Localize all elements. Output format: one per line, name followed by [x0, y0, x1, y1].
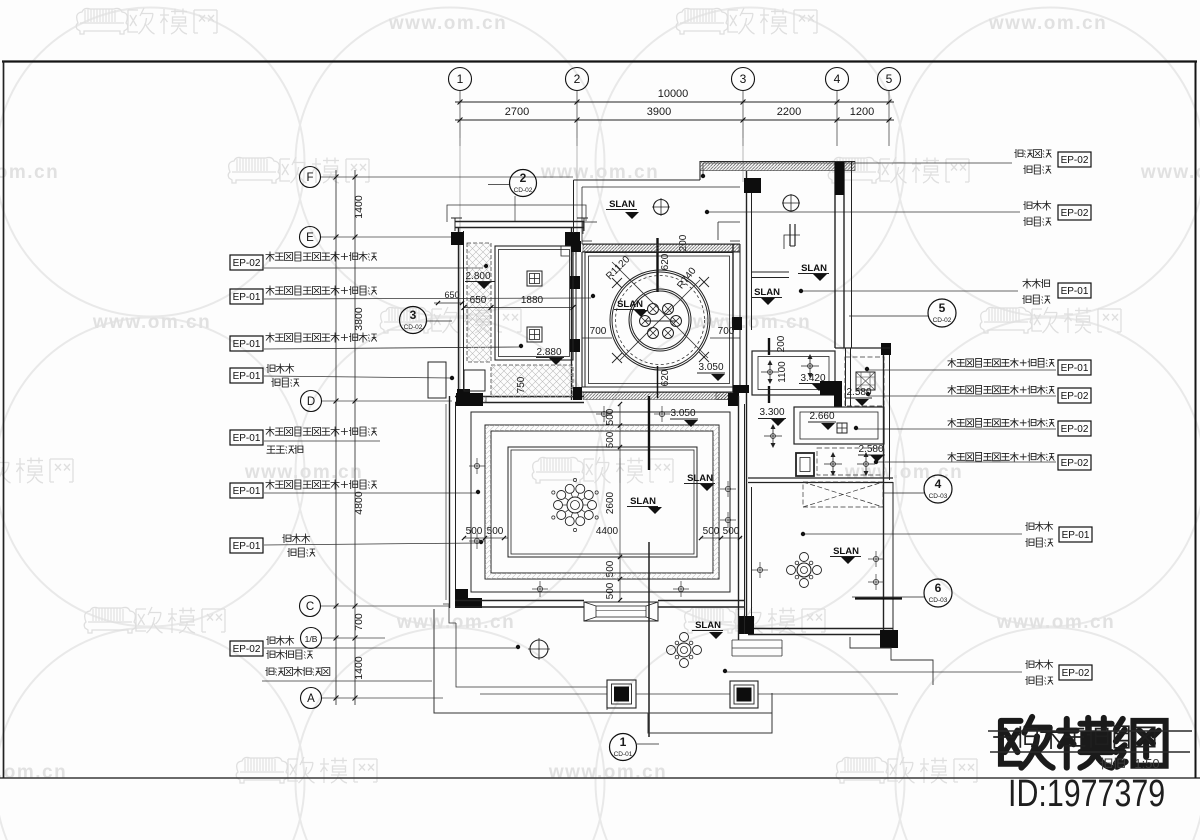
svg-text:2.660: 2.660	[809, 411, 834, 422]
dining top beam hatched	[582, 243, 740, 245]
grid extension lines left	[321, 176, 573, 178]
svg-text:2.580: 2.580	[858, 444, 883, 455]
room A 750 strip hatched	[491, 365, 573, 397]
svg-text:1: 1	[457, 72, 464, 86]
left callout EP-01 yuanlouban	[230, 368, 263, 383]
svg-text:650: 650	[444, 290, 459, 300]
left callout EP-01 rujiaoqi	[230, 289, 263, 304]
svg-text:SLAN: SLAN	[687, 473, 713, 484]
section cut marks room1100	[768, 338, 770, 355]
svg-text:700: 700	[590, 326, 607, 337]
svg-text:3900: 3900	[647, 106, 671, 118]
right callout EP-02 fangshui3	[1058, 455, 1091, 470]
foyer boundary top	[574, 179, 701, 181]
svg-text:SLAN: SLAN	[833, 546, 859, 557]
black corner column stair/bath	[820, 381, 842, 395]
svg-text:1880: 1880	[521, 295, 544, 306]
detail bubble 6 CD-03	[924, 579, 952, 607]
top dimension lines	[455, 101, 894, 103]
svg-text:A: A	[307, 693, 315, 705]
svg-text:2.580: 2.580	[846, 387, 871, 398]
svg-text:650: 650	[470, 295, 487, 306]
svg-text:700: 700	[353, 613, 365, 631]
svg-text:EP-01: EP-01	[233, 339, 261, 350]
svg-text:6: 6	[935, 581, 942, 595]
bathroom right wall	[883, 348, 885, 482]
svg-text:www.om.cn: www.om.cn	[396, 612, 515, 633]
svg-text:SLAN: SLAN	[801, 263, 827, 274]
bedroom cross ticks	[757, 567, 762, 572]
room A bottom wall	[455, 396, 584, 398]
watermark logos and texts	[76, 8, 217, 34]
terrace lamp circle	[530, 640, 548, 658]
svg-text:1200: 1200	[850, 106, 874, 118]
svg-text:2.880: 2.880	[536, 347, 561, 358]
right callout EP-02 yuanlouban3	[1059, 665, 1092, 680]
foyer inner step shapes	[583, 222, 740, 240]
svg-text:4400: 4400	[596, 526, 619, 537]
right callout EP-02 yuanlouban	[1058, 205, 1091, 220]
svg-text:CD-03: CD-03	[929, 493, 948, 500]
svg-text:2200: 2200	[777, 106, 801, 118]
svg-text:3.300: 3.300	[759, 407, 784, 418]
right callout EP-02 yuanjianzhuliang	[1058, 152, 1091, 167]
living cross ticks	[474, 463, 479, 468]
stair ceiling lamp	[783, 195, 799, 211]
svg-text:EP-02: EP-02	[1061, 155, 1089, 166]
svg-text:2700: 2700	[505, 106, 529, 118]
svg-text:4800: 4800	[353, 491, 365, 515]
svg-text:500: 500	[703, 526, 720, 537]
svg-text:3.050: 3.050	[670, 408, 695, 419]
svg-text:5: 5	[886, 72, 893, 86]
svg-text:www.om.cn: www.om.cn	[548, 762, 667, 783]
dining ceiling frame	[585, 253, 733, 388]
watermark circles	[0, 8, 305, 317]
svg-text:2: 2	[574, 72, 581, 86]
svg-text:EP-01: EP-01	[233, 371, 261, 382]
section line through dining	[656, 238, 658, 292]
room A light fixture 2	[527, 327, 542, 342]
svg-text:CD-03: CD-03	[929, 597, 948, 604]
right callout EP-01 rujiao	[1058, 360, 1091, 375]
svg-text:CD-01: CD-01	[614, 751, 633, 758]
svg-text:3: 3	[410, 308, 417, 322]
living left wall	[449, 396, 451, 608]
svg-text:500: 500	[487, 526, 504, 537]
terrace fan flower	[677, 643, 691, 657]
dining X marks	[612, 278, 622, 288]
right callout EP-02 fangshui1	[1058, 388, 1091, 403]
svg-text:2: 2	[520, 171, 527, 185]
svg-text:D: D	[307, 396, 315, 408]
left callout EP-02 fangshuirujiao	[230, 641, 263, 656]
living right wall	[738, 396, 740, 640]
svg-text:www.om.cn: www.om.cn	[92, 312, 211, 333]
left callout EP-02 qinggang fangshui	[230, 255, 263, 270]
bedroom ceiling fan	[797, 563, 811, 577]
bedroom closet dashed	[803, 482, 883, 507]
svg-text:EP-02: EP-02	[1062, 668, 1090, 679]
step lines below bedroom	[732, 640, 782, 656]
dining right wall	[732, 244, 734, 392]
svg-text:500: 500	[605, 408, 616, 425]
svg-text:F: F	[306, 172, 313, 184]
svg-text:EP-01: EP-01	[233, 292, 261, 303]
right callout EP-01 yuanlouban2	[1059, 527, 1092, 542]
room A small duct rect	[464, 370, 485, 391]
room A light fixture 1	[527, 271, 542, 286]
connector lines bottom	[480, 693, 607, 695]
svg-text:C: C	[306, 601, 314, 613]
svg-text:EP-01: EP-01	[233, 486, 261, 497]
living decorative band	[485, 425, 719, 579]
svg-text:EP-02: EP-02	[233, 258, 261, 269]
grid bubbles top 1-5	[449, 68, 472, 91]
living chandelier	[567, 497, 583, 513]
room A corner columns	[451, 232, 464, 245]
corridor dashed with lights	[817, 448, 884, 475]
svg-text:www.om.cn: www.om.cn	[844, 462, 963, 483]
hallway square light	[837, 423, 847, 433]
hallway ceiling panel	[794, 407, 884, 444]
right callout EP-02 fangshui2	[1058, 421, 1091, 436]
left callout EP-01 rujiao2	[230, 483, 263, 498]
living SW corner column	[455, 589, 468, 608]
svg-text:200: 200	[776, 335, 787, 352]
living top wall	[455, 396, 584, 398]
svg-text:EP-02: EP-02	[1061, 458, 1089, 469]
detail bubble 3 CD-02	[400, 307, 427, 334]
svg-text:www.om.cn: www.om.cn	[1140, 162, 1200, 183]
small room shower	[796, 453, 814, 476]
right callout EP-01 loutidi	[1058, 283, 1091, 298]
svg-text:E: E	[306, 232, 314, 244]
svg-text:SLAN: SLAN	[609, 199, 635, 210]
svg-text:5: 5	[939, 301, 946, 315]
bathroom heater fixture	[856, 372, 875, 390]
svg-text:3.050: 3.050	[698, 362, 723, 373]
svg-text:EP-01: EP-01	[1061, 363, 1089, 374]
svg-text:2600: 2600	[605, 491, 616, 514]
svg-text:EP-02: EP-02	[1061, 208, 1089, 219]
beam hatch top right strip	[700, 162, 855, 171]
room 1100 ceiling	[752, 351, 835, 395]
svg-text:4: 4	[935, 477, 942, 491]
svg-text:500: 500	[605, 560, 616, 577]
svg-text:1400: 1400	[353, 656, 365, 680]
room A ceiling panel	[495, 246, 573, 360]
living section line vertical	[648, 396, 650, 470]
bottom wall of hall band	[748, 477, 893, 479]
svg-text:1400: 1400	[353, 195, 365, 219]
living bottom wall and door	[455, 600, 584, 602]
svg-text:EP-01: EP-01	[233, 433, 261, 444]
dining radius leader lines	[612, 262, 708, 358]
stair shelf lines	[751, 271, 789, 273]
title block: big logo oumowang dark	[1001, 717, 1166, 768]
stair hall left wall	[746, 171, 748, 485]
svg-text:4: 4	[834, 72, 841, 86]
svg-text:EP-02: EP-02	[1061, 391, 1089, 402]
stair hall right wall	[834, 162, 836, 348]
room A outline / top wall with window	[455, 221, 584, 223]
detail bubble 2 CD-02	[510, 170, 537, 197]
room A right wall (to foyer/dining)	[571, 227, 573, 400]
svg-text:EP-01: EP-01	[1062, 530, 1090, 541]
dining left wall	[581, 252, 583, 387]
svg-text:3: 3	[740, 72, 747, 86]
room A 650 dropped strip hatched	[467, 243, 491, 362]
living inner panel	[508, 447, 697, 557]
svg-text:620: 620	[660, 369, 671, 386]
bathroom dashed ceiling	[845, 357, 884, 406]
dining bottom wall	[582, 386, 749, 388]
svg-text:CD-02: CD-02	[404, 324, 423, 331]
svg-text:500: 500	[605, 582, 616, 599]
dining circular ceiling	[610, 270, 710, 370]
svg-text:10000: 10000	[658, 88, 689, 100]
svg-text:EP-02: EP-02	[233, 644, 261, 655]
scale 1:50	[1100, 758, 1111, 770]
page border frame	[2, 60, 1197, 62]
svg-text:www.om.cn: www.om.cn	[996, 612, 1115, 633]
svg-text:SLAN: SLAN	[754, 287, 780, 298]
svg-text:750: 750	[516, 376, 527, 393]
foyer ceiling lamp	[654, 200, 669, 215]
svg-text:EP-01: EP-01	[1061, 286, 1089, 297]
grid bubbles left F E D C B A	[300, 167, 321, 188]
detail bubble 1 CD-01	[610, 734, 637, 761]
svg-text:www.om.cn: www.om.cn	[244, 462, 363, 483]
svg-text:1:50: 1:50	[1134, 756, 1159, 771]
bedroom walls	[746, 485, 748, 634]
in-ground light 1	[607, 680, 636, 708]
title text yiceng tianhua buzhitu	[993, 736, 1015, 738]
svg-text:700: 700	[718, 326, 735, 337]
ID number	[1008, 773, 1165, 815]
svg-text:SLAN: SLAN	[617, 299, 643, 310]
svg-text:SLAN: SLAN	[695, 620, 721, 631]
room A left wall	[458, 227, 460, 400]
svg-text:CD-02: CD-02	[933, 317, 952, 324]
living ceiling frame 1	[471, 412, 730, 592]
stair wall stub	[789, 224, 791, 246]
svg-text:CD-02: CD-02	[514, 187, 533, 194]
svg-text:www.om.cn: www.om.cn	[0, 762, 67, 783]
door threshold	[584, 602, 658, 621]
svg-text:3800: 3800	[353, 307, 365, 331]
svg-text:500: 500	[605, 431, 616, 448]
in-ground light 2	[730, 681, 758, 708]
svg-text:1: 1	[620, 735, 627, 749]
left callout EP-01 fangshui2	[230, 336, 263, 351]
svg-text:www.om.cn: www.om.cn	[988, 13, 1107, 34]
title underline double	[988, 730, 1192, 732]
svg-text:www.om.cn: www.om.cn	[388, 13, 507, 34]
left dimension lines	[335, 170, 337, 705]
svg-text:500: 500	[466, 526, 483, 537]
left callout waiqiang	[265, 667, 274, 676]
svg-text:500: 500	[723, 526, 740, 537]
detail bubble 5 CD-02	[928, 299, 956, 327]
left callout EP-01 yuanlouban2	[230, 538, 263, 553]
svg-text:1/B: 1/B	[305, 634, 318, 644]
svg-text:EP-02: EP-02	[1061, 424, 1089, 435]
dining chandelier 6 bulbs	[648, 304, 659, 315]
svg-text:2.800: 2.800	[465, 271, 490, 282]
left callout EP-01 fengping	[230, 430, 263, 445]
exterior eave line above room A	[447, 205, 586, 222]
svg-text:EP-01: EP-01	[233, 541, 261, 552]
svg-text:www.om.cn: www.om.cn	[0, 162, 59, 183]
svg-text:SLAN: SLAN	[630, 496, 656, 507]
terrace outline	[434, 609, 772, 733]
detail bubble 4 CD-03	[924, 475, 952, 503]
svg-text:ID:1977379: ID:1977379	[1008, 773, 1165, 815]
grid line 1 through plan	[459, 138, 461, 397]
